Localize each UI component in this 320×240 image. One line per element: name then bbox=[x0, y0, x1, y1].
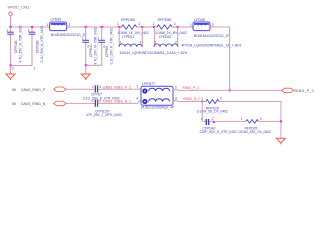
wire joining cap3 cap4 bottoms bbox=[86, 64, 102, 65]
svg-text:VPOC_CN1: VPOC_CN1 bbox=[8, 5, 30, 10]
svg-text:RING_P_C: RING_P_C bbox=[295, 89, 315, 93]
choke pin3 stub bbox=[173, 100, 178, 102]
svg-text:2: 2 bbox=[174, 22, 176, 26]
pin stub L1.2 bbox=[67, 26, 70, 28]
capacitor C4 branch wire upper bbox=[101, 27, 103, 38]
capacitor C1 plates bbox=[7, 32, 14, 35]
ground G1 symbol bbox=[6, 74, 15, 80]
pin stub RFPD56.1 bbox=[154, 26, 157, 28]
node junction rail x119 bbox=[118, 26, 120, 28]
svg-text:2: 2 bbox=[69, 23, 71, 27]
wire VPOC drop bbox=[10, 15, 12, 27]
svg-text:2: 2 bbox=[212, 23, 214, 27]
svg-text:1: 1 bbox=[155, 41, 157, 45]
svg-text:RFPD55: RFPD55 bbox=[121, 18, 135, 22]
svg-text:RING_P_C: RING_P_C bbox=[183, 86, 201, 90]
wire top rail left bbox=[11, 26, 47, 28]
wire RFPD26 out with corner down bbox=[222, 102, 281, 122]
wire RING_P to choke bbox=[102, 88, 138, 90]
svg-text:2: 2 bbox=[212, 117, 214, 121]
svg-text:1: 1 bbox=[47, 23, 49, 27]
off-page flag RING_P_C bbox=[282, 88, 294, 92]
capacitor C3 lower wire bbox=[85, 43, 87, 46]
ground G3 symbol bbox=[276, 138, 285, 144]
svg-text:CAW1_RING_P: CAW1_RING_P bbox=[21, 88, 46, 92]
svg-text:0.1U_50V_K_X7R_0402: 0.1U_50V_K_X7R_0402 bbox=[40, 26, 44, 63]
ground G3 stub bbox=[280, 121, 282, 138]
svg-text:1: 1 bbox=[241, 117, 243, 121]
svg-text:1: 1 bbox=[201, 117, 203, 121]
capacitor C1 lower wire bbox=[10, 35, 12, 38]
svg-text:1: 1 bbox=[117, 22, 119, 26]
inductor LFPD61 coil bbox=[119, 44, 142, 47]
resistor RFPD26 pin2 stub bbox=[219, 101, 222, 103]
wire joining cap1 cap2 bottoms bbox=[11, 65, 33, 66]
wire RING_N_C to RFPD26 bbox=[178, 101, 203, 103]
svg-text:4.7U_25V_M_X5R_0402: 4.7U_25V_M_X5R_0402 bbox=[18, 25, 22, 62]
capacitor CFPD7 plates bbox=[95, 85, 99, 92]
resistor RFPD26 pin1 stub bbox=[202, 101, 206, 103]
svg-text:LFPD77: LFPD77 bbox=[142, 82, 155, 86]
pin stub RFPD56.2 bbox=[172, 26, 178, 28]
svg-text:3: 3 bbox=[175, 96, 177, 100]
common-mode choke LFPD77 body bbox=[141, 86, 173, 105]
inductor LFPD61 pin1 stub bbox=[118, 27, 120, 44]
svg-text:1: 1 bbox=[153, 22, 155, 26]
svg-text:4: 4 bbox=[136, 96, 138, 100]
svg-text:CFPD41: CFPD41 bbox=[89, 44, 93, 57]
node junction at cap4 bbox=[101, 26, 103, 28]
svg-text:LFD39: LFD39 bbox=[51, 18, 62, 22]
svg-text:2: 2 bbox=[220, 97, 222, 101]
resistor RFPD25 zigzag bbox=[246, 120, 259, 124]
wire RING_N to choke with jog bbox=[102, 101, 141, 104]
svg-text:1: 1 bbox=[6, 28, 8, 32]
svg-text:CFP01B: CFP01B bbox=[14, 40, 18, 53]
capacitor CFPD7 pin1 stub bbox=[91, 88, 95, 90]
svg-text:2: 2 bbox=[99, 85, 101, 89]
capacitor CFPD40 pin2 stub bbox=[209, 120, 213, 122]
wire rail to LFD45 bbox=[178, 26, 191, 28]
node junction at cap3 bbox=[85, 26, 87, 28]
svg-text:1/16W_56_1%_0402: 1/16W_56_1%_0402 bbox=[197, 110, 228, 114]
node junction rail x154 bbox=[153, 26, 155, 28]
svg-text:1: 1 bbox=[201, 97, 203, 101]
svg-text:1/10W_200_1%_0402: 1/10W_200_1%_0402 bbox=[238, 130, 271, 134]
svg-text:56: 56 bbox=[12, 102, 16, 106]
capacitor C4 plates bbox=[98, 40, 105, 43]
inductor LFPD61 pin2 stub bbox=[141, 27, 143, 44]
capacitor C2 lower wire bbox=[31, 35, 33, 38]
svg-text:100UH_LQH2HNPZ101MMEL_0.43A_+-: 100UH_LQH2HNPZ101MMEL_0.43A_+-20% bbox=[120, 51, 188, 55]
svg-text:2: 2 bbox=[139, 22, 141, 26]
capacitor C2 branch wire upper bbox=[31, 27, 33, 30]
wire CFPD40 to RFPD25 bbox=[214, 120, 242, 122]
svg-text:4P7UH_LQH32PZ4R7NN0L_1A_+-30%: 4P7UH_LQH32PZ4R7NN0L_1A_+-30% bbox=[182, 44, 242, 48]
svg-text:1: 1 bbox=[136, 85, 138, 89]
svg-text:2: 2 bbox=[12, 67, 14, 71]
svg-text:55: 55 bbox=[12, 88, 16, 92]
svg-text:2: 2 bbox=[260, 117, 262, 121]
svg-text:DLW21S2900HQ2_4P: DLW21S2900HQ2_4P bbox=[141, 105, 175, 109]
node junction cap3 bottom bbox=[85, 64, 87, 66]
svg-text:CAW1_RING_N: CAW1_RING_N bbox=[21, 102, 46, 106]
svg-text:BLM18AG102SZ1D_2P: BLM18AG102SZ1D_2P bbox=[194, 34, 230, 38]
node junction P line x229.6 bbox=[229, 89, 231, 91]
pin stub LFD45.2 bbox=[210, 26, 214, 28]
node junction x281 bbox=[280, 120, 282, 122]
svg-text:1: 1 bbox=[81, 37, 83, 41]
wire RC branch drop bbox=[202, 102, 206, 122]
node junction x213.6 bbox=[213, 121, 215, 123]
resistor RFPD56 zigzag bbox=[157, 25, 172, 29]
wire RING_P left bbox=[66, 88, 91, 90]
off-page flag CAW1_RING_N bbox=[54, 101, 67, 106]
wire RING_P_C out bbox=[178, 89, 282, 91]
capacitor CFPD157 pin1 stub bbox=[91, 102, 95, 104]
capacitor CFPD157 plates bbox=[95, 100, 99, 107]
capacitor C3 plates bbox=[82, 40, 89, 43]
capacitor C1 branch wire upper bbox=[10, 27, 12, 30]
choke pin1 stub bbox=[138, 88, 141, 90]
svg-text:LFD45: LFD45 bbox=[194, 18, 205, 22]
svg-text:2: 2 bbox=[140, 41, 142, 45]
svg-text:RFPD56: RFPD56 bbox=[158, 18, 172, 22]
capacitor C3 branch wire upper bbox=[85, 27, 87, 38]
wire RING_N left bbox=[66, 102, 91, 104]
svg-text:2: 2 bbox=[99, 99, 101, 103]
inductor LFPD62 pin1 stub bbox=[154, 27, 156, 44]
svg-text:1: 1 bbox=[120, 41, 122, 45]
pin stub L1.1 bbox=[47, 26, 51, 28]
svg-text:220P_50V_K_X7R_0402: 220P_50V_K_X7R_0402 bbox=[200, 130, 238, 134]
svg-text:1: 1 bbox=[92, 85, 94, 89]
svg-text:LFPD62: LFPD62 bbox=[159, 35, 172, 39]
pin stub RFPD55.2 bbox=[137, 26, 140, 28]
svg-text:1: 1 bbox=[97, 37, 99, 41]
ground G2 symbol bbox=[81, 74, 90, 80]
pin stub RFPD55.1 bbox=[116, 26, 119, 28]
svg-text:CFPD9: CFPD9 bbox=[105, 46, 109, 57]
wire rail right end with corner down bbox=[214, 27, 230, 90]
svg-text:CFP03B: CFP03B bbox=[35, 40, 39, 53]
node junction rail x142 bbox=[141, 26, 143, 28]
capacitor C4 lower wire bbox=[101, 43, 103, 46]
capacitor CFPD7 pin2 stub bbox=[98, 88, 102, 90]
capacitor C2 plates bbox=[29, 32, 36, 35]
inductor LFPD62 pin2 stub bbox=[177, 27, 179, 44]
ferrite bead LFD45 body bbox=[193, 22, 210, 31]
svg-text:1: 1 bbox=[190, 23, 192, 27]
wire top rail mid bbox=[70, 26, 121, 28]
svg-text:1: 1 bbox=[92, 99, 94, 103]
node junction RING_N x202 bbox=[201, 101, 203, 103]
capacitor CFPD40 plates bbox=[206, 119, 210, 125]
wire RFPD25 to junction bbox=[263, 120, 281, 122]
ground G2 stub bbox=[85, 65, 87, 74]
inductor LFPD62 coil bbox=[154, 44, 178, 47]
choke pin2 stub bbox=[173, 89, 178, 91]
svg-text:2: 2 bbox=[175, 41, 177, 45]
node junction at cap2 bbox=[31, 26, 33, 28]
svg-text:LFPD61: LFPD61 bbox=[122, 35, 135, 39]
off-page flag CAW1_RING_P bbox=[54, 87, 67, 92]
resistor RFPD25 pin2 stub bbox=[258, 120, 262, 122]
ground G1 stub bbox=[10, 66, 12, 74]
svg-text:47P_25V_J_NPO_0402: 47P_25V_J_NPO_0402 bbox=[86, 113, 122, 117]
connector VPOC_CN1 pin circle bbox=[9, 12, 12, 15]
node junction rail x177.7 bbox=[177, 26, 179, 28]
resistor RFPD55 zigzag bbox=[122, 25, 137, 29]
resistor RFPD26 zigzag bbox=[206, 100, 219, 104]
svg-text:RING_N_C: RING_N_C bbox=[184, 97, 202, 101]
node junction at connector/cap1 bbox=[9, 26, 11, 28]
svg-text:1: 1 bbox=[28, 28, 30, 32]
wire rail between resistors bbox=[142, 26, 154, 28]
svg-text:4.7U_25V_M_X5R_0402: 4.7U_25V_M_X5R_0402 bbox=[94, 27, 98, 64]
capacitor CFPD157 pin2 stub bbox=[98, 102, 102, 104]
node junction cap1 bottom bbox=[10, 64, 12, 66]
ferrite bead LFD39 body bbox=[50, 22, 67, 31]
svg-text:2: 2 bbox=[34, 67, 36, 71]
svg-text:0.1U_25V_K_X7R_0402: 0.1U_25V_K_X7R_0402 bbox=[109, 28, 113, 65]
svg-text:2: 2 bbox=[175, 85, 177, 89]
pin stub LFD45.1 bbox=[191, 26, 194, 28]
